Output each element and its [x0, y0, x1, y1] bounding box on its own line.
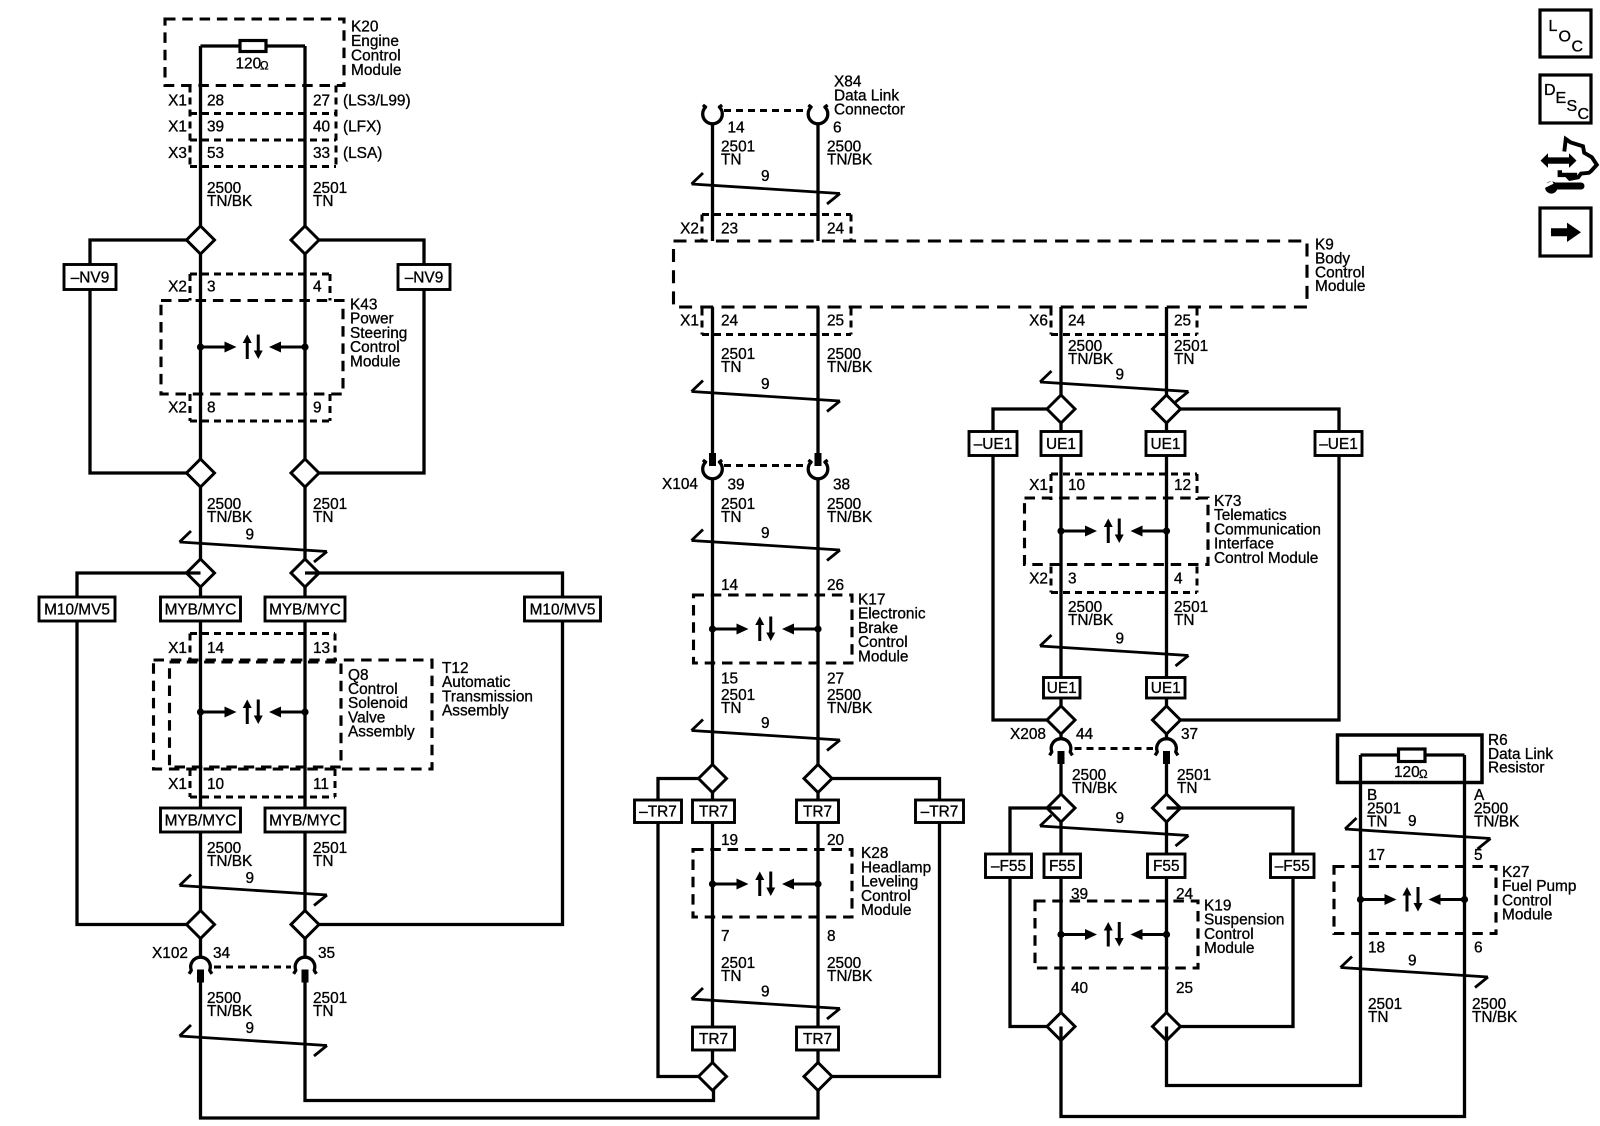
option box -TR7 left [635, 800, 682, 823]
svg-text:Module: Module [1502, 907, 1552, 924]
wire -NV9 right bypass [305, 240, 424, 473]
svg-text:25: 25 [827, 313, 844, 330]
wire label 2501 TN below X104 [721, 496, 755, 526]
junction diamond pair above T12 [187, 559, 320, 587]
wire label 2500 TN/BK below K9 X1 [827, 346, 873, 376]
wire label 2500 TN/BK below X102 [207, 990, 253, 1020]
svg-text:Assembly: Assembly [348, 723, 415, 740]
svg-text:9: 9 [761, 376, 770, 393]
pin row X1 10 12 of K73 [1029, 474, 1197, 500]
svg-text:TR7: TR7 [803, 804, 832, 821]
wire -UE1 right bypass [1167, 409, 1340, 720]
svg-text:9: 9 [761, 168, 770, 185]
svg-text:9: 9 [246, 1020, 255, 1037]
svg-text:TN/BK: TN/BK [827, 700, 873, 717]
wire 2500 TN/BK from K9 X6 down right branch [1059, 307, 1062, 740]
option box F55 on 2500 wire [1044, 854, 1081, 878]
svg-text:–TR7: –TR7 [639, 804, 677, 821]
svg-text:120: 120 [1394, 764, 1420, 781]
wire -UE1 left bypass [993, 409, 1061, 720]
svg-text:D: D [1544, 82, 1556, 99]
svg-text:MYB/MYC: MYB/MYC [269, 601, 341, 618]
svg-text:TN/BK: TN/BK [1072, 780, 1118, 797]
svg-text:TN: TN [1174, 612, 1195, 629]
svg-text:UE1: UE1 [1046, 436, 1076, 453]
svg-text:UE1: UE1 [1151, 436, 1181, 453]
svg-text:10: 10 [1068, 477, 1085, 494]
svg-text:TN/BK: TN/BK [207, 193, 253, 210]
pin row X1 14 13 of T12 [168, 634, 335, 661]
transceiver symbol in K17 [709, 617, 822, 642]
pin 15 of K17 [721, 671, 738, 688]
twisted pair symbol with 9 twists above K9 [692, 168, 841, 204]
svg-text:E: E [1556, 90, 1567, 107]
svg-text:120: 120 [236, 56, 262, 73]
svg-text:TN/BK: TN/BK [207, 853, 253, 870]
wire 2501 TN from K9 to X104 [711, 307, 714, 453]
wire 2501 TN left bus vertical [303, 46, 306, 958]
icon double arrow with connector outline and wrench [1541, 139, 1597, 194]
junction diamond pair above TR7 row [699, 765, 833, 793]
svg-text:35: 35 [318, 945, 335, 962]
pin row X1 10 11 of T12 [168, 769, 335, 797]
transceiver symbol in K19 [1057, 922, 1170, 947]
wire label 2500 TN/BK below K17 [827, 687, 873, 717]
pin row X6 24 25 of K9 [1029, 309, 1197, 335]
option box -NV9 right [398, 265, 450, 290]
svg-text:7: 7 [721, 928, 730, 945]
svg-text:–NV9: –NV9 [71, 269, 110, 286]
svg-text:Ω: Ω [260, 61, 269, 73]
wire label 2501 TN below K9 X1 [721, 346, 755, 376]
wire K20 terminating resistor jumper [201, 44, 306, 47]
wire 2500 TN/BK from X104 to branch diamond [816, 478, 819, 1077]
wire -F55 left bypass [1010, 808, 1061, 1027]
svg-text:X2: X2 [1029, 571, 1048, 588]
svg-text:9: 9 [246, 527, 255, 544]
svg-text:44: 44 [1076, 726, 1094, 743]
wire label 2500 TN/BK below K43 [207, 496, 253, 526]
svg-text:Module: Module [350, 353, 400, 370]
pin 6 of K27 [1474, 940, 1483, 957]
svg-text:27: 27 [313, 93, 330, 110]
svg-text:37: 37 [1181, 726, 1198, 743]
icon box right arrow [1540, 208, 1591, 256]
svg-text:9: 9 [313, 400, 322, 417]
svg-text:33: 33 [313, 145, 330, 162]
wire -F55 right bypass [1167, 808, 1294, 1027]
svg-text:14: 14 [207, 640, 225, 657]
twisted pair symbol with 9 twists, left pair middle [180, 870, 328, 906]
svg-text:S: S [1567, 98, 1578, 115]
wire label 2500 TN/BK below X208 [1072, 767, 1118, 797]
svg-text:TN: TN [313, 193, 334, 210]
svg-text:3: 3 [207, 279, 216, 296]
svg-text:O: O [1559, 29, 1571, 46]
option box MYB/MYC lower on 2500 wire [161, 808, 241, 832]
wire label A 2500 TN/BK below R6 [1474, 801, 1520, 831]
junction diamond pair above X102 [187, 911, 320, 939]
svg-text:17: 17 [1368, 847, 1385, 864]
svg-text:11: 11 [313, 776, 329, 793]
svg-text:X2: X2 [168, 279, 187, 296]
svg-text:TN: TN [313, 853, 334, 870]
twisted pair symbol with 9 twists, left pair lower [180, 1020, 328, 1056]
pin row X2 3 4 of K43 [168, 274, 330, 301]
pin A of R6 [1474, 787, 1485, 804]
pin row X1 28 27 (LS3/L99) [168, 93, 410, 110]
option box TR7 on 2500 wire [797, 800, 839, 823]
twisted pair symbol with 9 twists below K28 [692, 984, 841, 1020]
wire 2500 TN/BK from R6 to K27 bottom run [1061, 783, 1465, 1117]
svg-text:TN: TN [721, 968, 742, 985]
svg-text:UE1: UE1 [1151, 680, 1181, 697]
svg-text:MYB/MYC: MYB/MYC [269, 812, 341, 829]
svg-text:Control Module: Control Module [1214, 550, 1318, 567]
svg-text:TN: TN [721, 152, 742, 169]
wire -TR7 left bypass [658, 779, 713, 1077]
svg-text:Assembly: Assembly [442, 703, 509, 720]
svg-text:TR7: TR7 [699, 1031, 728, 1048]
svg-text:TN: TN [313, 1003, 334, 1020]
wire label 2501 TN below K43 [313, 496, 347, 526]
svg-text:TN: TN [313, 509, 334, 526]
pin row X3 53 33 (LSA) [168, 145, 382, 162]
svg-text:F55: F55 [1153, 858, 1180, 875]
module box K27 Fuel Pump Control Module [1334, 864, 1576, 934]
wire label 2501 TN below K17 [721, 687, 755, 717]
svg-text:8: 8 [207, 400, 216, 417]
module box K9 Body Control Module [674, 237, 1366, 308]
svg-text:TN/BK: TN/BK [1472, 1009, 1518, 1026]
wire label 2501 TN below X84 [721, 139, 755, 169]
wire 2501 TN from K9 X6 down right branch [1165, 307, 1168, 740]
svg-text:(LSA): (LSA) [343, 145, 382, 162]
svg-text:9: 9 [761, 715, 770, 732]
wire label B 2501 TN below R6 [1367, 801, 1401, 831]
wire label 2500 TN/BK below K28 [827, 955, 873, 985]
wire 2500 TN/BK inside R6 [1463, 755, 1466, 783]
wire 2501 TN from X104 to branch diamond [711, 478, 714, 1077]
svg-text:TN: TN [721, 359, 742, 376]
inline connector X208 pins 44 and 37 [1010, 726, 1198, 764]
pin 40 of K19 [1071, 980, 1088, 997]
svg-text:X1: X1 [1029, 477, 1048, 494]
svg-text:TN/BK: TN/BK [207, 1003, 253, 1020]
option box M10/MV5 right [525, 597, 601, 621]
pin 20 of K28 [827, 832, 844, 849]
svg-text:TN: TN [1177, 780, 1198, 797]
module box K28 Headlamp Leveling Control Module [693, 845, 931, 919]
svg-text:9: 9 [761, 984, 770, 1001]
svg-text:(LS3/L99): (LS3/L99) [343, 93, 411, 110]
junction diamond pair above X208 [1047, 706, 1181, 734]
svg-text:TN/BK: TN/BK [207, 509, 253, 526]
svg-text:5: 5 [1474, 847, 1483, 864]
wire M10/MV5 left bypass [77, 573, 201, 925]
component box R6 Data Link Resistor [1338, 732, 1554, 783]
svg-text:X6: X6 [1029, 313, 1048, 330]
svg-text:TN/BK: TN/BK [1474, 814, 1520, 831]
twisted pair symbol with 9 twists above K27 [1345, 813, 1491, 849]
svg-text:24: 24 [827, 221, 845, 238]
svg-text:8: 8 [827, 928, 836, 945]
wire label 2501 TN below K73 [1174, 599, 1208, 629]
svg-text:X1: X1 [680, 313, 699, 330]
pin row X2 8 9 of K43 [168, 394, 330, 421]
option box M10/MV5 left [39, 597, 115, 621]
svg-text:14: 14 [728, 120, 746, 137]
wire label 2501 TN below K28 [721, 955, 755, 985]
option box UE1 on 2500 wire [1041, 432, 1081, 456]
pin 7 of K28 [721, 928, 730, 945]
pin 5 of K27 [1474, 847, 1483, 864]
transceiver symbol in K73 [1057, 519, 1170, 544]
svg-text:Resistor: Resistor [1488, 760, 1544, 777]
pin 8 of K28 [827, 928, 836, 945]
svg-text:X1: X1 [168, 640, 187, 657]
svg-text:28: 28 [207, 93, 224, 110]
junction diamond pair below K43 [187, 459, 320, 487]
svg-text:TN: TN [1174, 351, 1195, 368]
resistor 120 ohm in K20 [236, 41, 270, 73]
svg-text:40: 40 [1071, 980, 1088, 997]
wire 2501 TN from R6 to K27 bottom run [1167, 783, 1361, 1086]
wire label 2501 TN below K27 [1368, 996, 1402, 1026]
svg-text:TN: TN [1367, 814, 1388, 831]
svg-text:39: 39 [728, 477, 745, 494]
module box K17 Electronic Brake Control Module [694, 592, 926, 666]
svg-text:9: 9 [1116, 810, 1125, 827]
svg-text:Module: Module [1204, 940, 1254, 957]
pin row X2 3 4 of K73 [1029, 567, 1197, 593]
option box -F55 right [1271, 854, 1315, 878]
svg-text:X2: X2 [168, 400, 187, 417]
svg-text:38: 38 [833, 477, 850, 494]
wire 2500 TN/BK from X208 to F55 branch [1059, 763, 1062, 1027]
pin 14 of X84 [728, 120, 746, 137]
option box MYB/MYC on 2501 wire [265, 597, 345, 621]
svg-text:4: 4 [1174, 571, 1183, 588]
twisted pair symbol with 9 twists, left pair upper [180, 527, 328, 563]
svg-text:14: 14 [721, 577, 739, 594]
svg-text:3: 3 [1068, 571, 1077, 588]
transceiver symbol in K27 [1357, 887, 1468, 912]
svg-text:–UE1: –UE1 [974, 436, 1013, 453]
svg-text:19: 19 [721, 832, 738, 849]
wire label 2500 TN/BK below X84 [827, 139, 873, 169]
svg-text:M10/MV5: M10/MV5 [44, 601, 110, 618]
module box K19 Suspension Control Module [1035, 898, 1284, 969]
svg-text:(LFX): (LFX) [343, 119, 381, 136]
svg-text:Ω: Ω [1419, 769, 1428, 781]
svg-text:4: 4 [313, 279, 322, 296]
svg-text:9: 9 [1116, 631, 1125, 648]
svg-text:–TR7: –TR7 [921, 804, 959, 821]
svg-text:TN: TN [721, 700, 742, 717]
option box TR7 lower on 2501 wire [693, 1027, 735, 1050]
twisted pair symbol with 9 twists below K9 X1 [692, 376, 841, 412]
wire 2500 TN/BK from K9 to X104 [816, 307, 819, 453]
svg-text:18: 18 [1368, 940, 1385, 957]
svg-text:X104: X104 [662, 476, 698, 493]
pin 18 of K27 [1368, 940, 1385, 957]
pin 25 of K19 [1176, 980, 1193, 997]
svg-text:40: 40 [313, 119, 330, 136]
junction diamond pair above F55 row [1047, 794, 1181, 822]
connector rows X1/X1/X3 of K20 [190, 86, 336, 167]
pin B of R6 [1367, 787, 1377, 804]
svg-text:9: 9 [1408, 953, 1417, 970]
wire -TR7 right bypass [818, 779, 940, 1077]
wire 2501 TN from X84 to K9 [711, 123, 714, 241]
svg-text:9: 9 [1116, 367, 1125, 384]
wire label 2500 TN/BK below K20 [207, 180, 253, 210]
inline connector X102 pins 34 and 35 [152, 945, 335, 983]
svg-text:X1: X1 [168, 93, 187, 110]
wire 2501 TN from X208 to F55 branch [1165, 763, 1168, 1027]
twisted pair symbol with 9 twists below K73 [1040, 631, 1189, 667]
module box Q8 Control Solenoid Valve Assembly [170, 662, 416, 767]
wire 2500 TN/BK from X84 to K9 [816, 123, 819, 241]
twisted pair symbol with 9 twists below K27 [1341, 953, 1489, 988]
svg-text:23: 23 [721, 221, 738, 238]
wire 2500 TN/BK bottom run to headlamp branch [201, 981, 819, 1118]
wire label 2500 TN/BK below MYB/MYC [207, 840, 253, 870]
option box MYB/MYC on 2500 wire [161, 597, 241, 621]
option box -UE1 right [1315, 432, 1362, 456]
svg-text:X208: X208 [1010, 726, 1046, 743]
option box UE1 lower on 2500 wire [1044, 678, 1081, 699]
svg-text:TN/BK: TN/BK [827, 359, 873, 376]
option box -TR7 right [916, 800, 964, 823]
pin row X1 39 40 (LFX) [168, 119, 381, 136]
svg-text:–F55: –F55 [991, 858, 1026, 875]
pin 26 of K17 [827, 577, 844, 594]
svg-text:X2: X2 [680, 221, 699, 238]
wire label 2501 TN below X208 [1177, 767, 1211, 797]
junction diamond pair below K19 [1047, 1013, 1181, 1041]
svg-text:53: 53 [207, 145, 224, 162]
svg-text:TN/BK: TN/BK [1068, 351, 1114, 368]
svg-text:6: 6 [833, 120, 842, 137]
pin 24 of K19 [1176, 886, 1194, 903]
wire M10/MV5 right bypass [305, 573, 563, 925]
pin 39 of K19 [1071, 886, 1088, 903]
svg-text:13: 13 [313, 640, 330, 657]
wire label 2500 TN/BK below K9 X6 [1068, 338, 1114, 368]
svg-text:25: 25 [1174, 313, 1191, 330]
junction diamond pair at bottom of middle branch [699, 1063, 833, 1091]
resistor 120 ohm in R6 [1394, 749, 1428, 781]
pin 14 of K17 [721, 577, 739, 594]
svg-text:Module: Module [351, 62, 401, 79]
svg-text:UE1: UE1 [1047, 680, 1077, 697]
pin 6 of X84 [833, 120, 842, 137]
pin 19 of K28 [721, 832, 738, 849]
svg-text:9: 9 [1408, 813, 1417, 830]
svg-text:X102: X102 [152, 945, 188, 962]
twisted pair symbol with 9 twists above UE1 row [1040, 367, 1189, 403]
svg-text:15: 15 [721, 671, 738, 688]
svg-text:TR7: TR7 [699, 804, 728, 821]
svg-text:9: 9 [761, 525, 770, 542]
svg-text:F55: F55 [1049, 858, 1076, 875]
svg-text:TN/BK: TN/BK [827, 152, 873, 169]
svg-text:26: 26 [827, 577, 844, 594]
svg-text:27: 27 [827, 671, 844, 688]
wire label 2501 TN below MYB/MYC [313, 840, 347, 870]
module box T12 Automatic Transmission Assembly [154, 660, 533, 769]
option box F55 on 2501 wire [1148, 854, 1186, 878]
junction diamond pair above UE1 row [1047, 395, 1181, 423]
icon box LOC [1540, 10, 1591, 57]
option box -F55 left [986, 854, 1032, 878]
option box TR7 on 2501 wire [693, 800, 735, 823]
option box UE1 lower on 2501 wire [1147, 678, 1186, 699]
svg-text:12: 12 [1174, 477, 1191, 494]
wire label 2501 TN below K9 X6 [1174, 338, 1208, 368]
wire label 2501 TN below X102 [313, 990, 347, 1020]
svg-text:C: C [1578, 106, 1590, 123]
inline connector X104 pins 39 and 38 [662, 453, 850, 494]
svg-text:X1: X1 [168, 776, 187, 793]
svg-text:MYB/MYC: MYB/MYC [165, 812, 237, 829]
wire -NV9 left bypass [90, 240, 201, 473]
svg-text:Module: Module [858, 648, 908, 665]
wire label 2500 TN/BK below K27 [1472, 996, 1518, 1026]
svg-text:25: 25 [1176, 980, 1193, 997]
option box -UE1 left [969, 432, 1017, 456]
pin row X2 23 24 of K9 [680, 215, 851, 242]
option box -NV9 left [64, 265, 116, 290]
transceiver symbol in K43 [197, 335, 309, 360]
junction diamond left bus upper pair [187, 226, 320, 254]
svg-text:MYB/MYC: MYB/MYC [165, 601, 237, 618]
svg-text:TN/BK: TN/BK [827, 968, 873, 985]
svg-text:–F55: –F55 [1275, 858, 1310, 875]
transceiver symbol in K28 [709, 872, 822, 897]
svg-text:20: 20 [827, 832, 844, 849]
svg-text:X3: X3 [168, 145, 187, 162]
svg-text:24: 24 [721, 313, 739, 330]
wire 2501 TN bottom run to headlamp branch [305, 981, 714, 1101]
svg-text:L: L [1549, 18, 1558, 35]
svg-text:39: 39 [207, 119, 224, 136]
wire R6 resistor jumper [1361, 753, 1465, 756]
module box K20 Engine Control Module [165, 19, 401, 86]
svg-text:24: 24 [1068, 313, 1086, 330]
svg-text:10: 10 [207, 776, 224, 793]
svg-text:C: C [1572, 39, 1584, 56]
svg-text:TN: TN [1368, 1009, 1389, 1026]
svg-text:M10/MV5: M10/MV5 [530, 601, 596, 618]
twisted pair symbol with 9 twists above K17 [692, 525, 841, 561]
svg-text:Module: Module [1315, 278, 1365, 295]
svg-text:Module: Module [861, 902, 911, 919]
svg-text:TN/BK: TN/BK [1068, 612, 1114, 629]
svg-text:–NV9: –NV9 [405, 269, 444, 286]
pin 27 of K17 [827, 671, 844, 688]
svg-text:TN/BK: TN/BK [827, 509, 873, 526]
svg-text:TR7: TR7 [803, 1031, 832, 1048]
svg-text:X1: X1 [168, 119, 187, 136]
twisted pair symbol with 9 twists above F55 row [1040, 810, 1189, 846]
svg-text:6: 6 [1474, 940, 1483, 957]
wire 2501 TN inside R6 [1359, 755, 1362, 783]
wire label 2500 TN/BK below X104 [827, 496, 873, 526]
svg-text:34: 34 [213, 945, 231, 962]
